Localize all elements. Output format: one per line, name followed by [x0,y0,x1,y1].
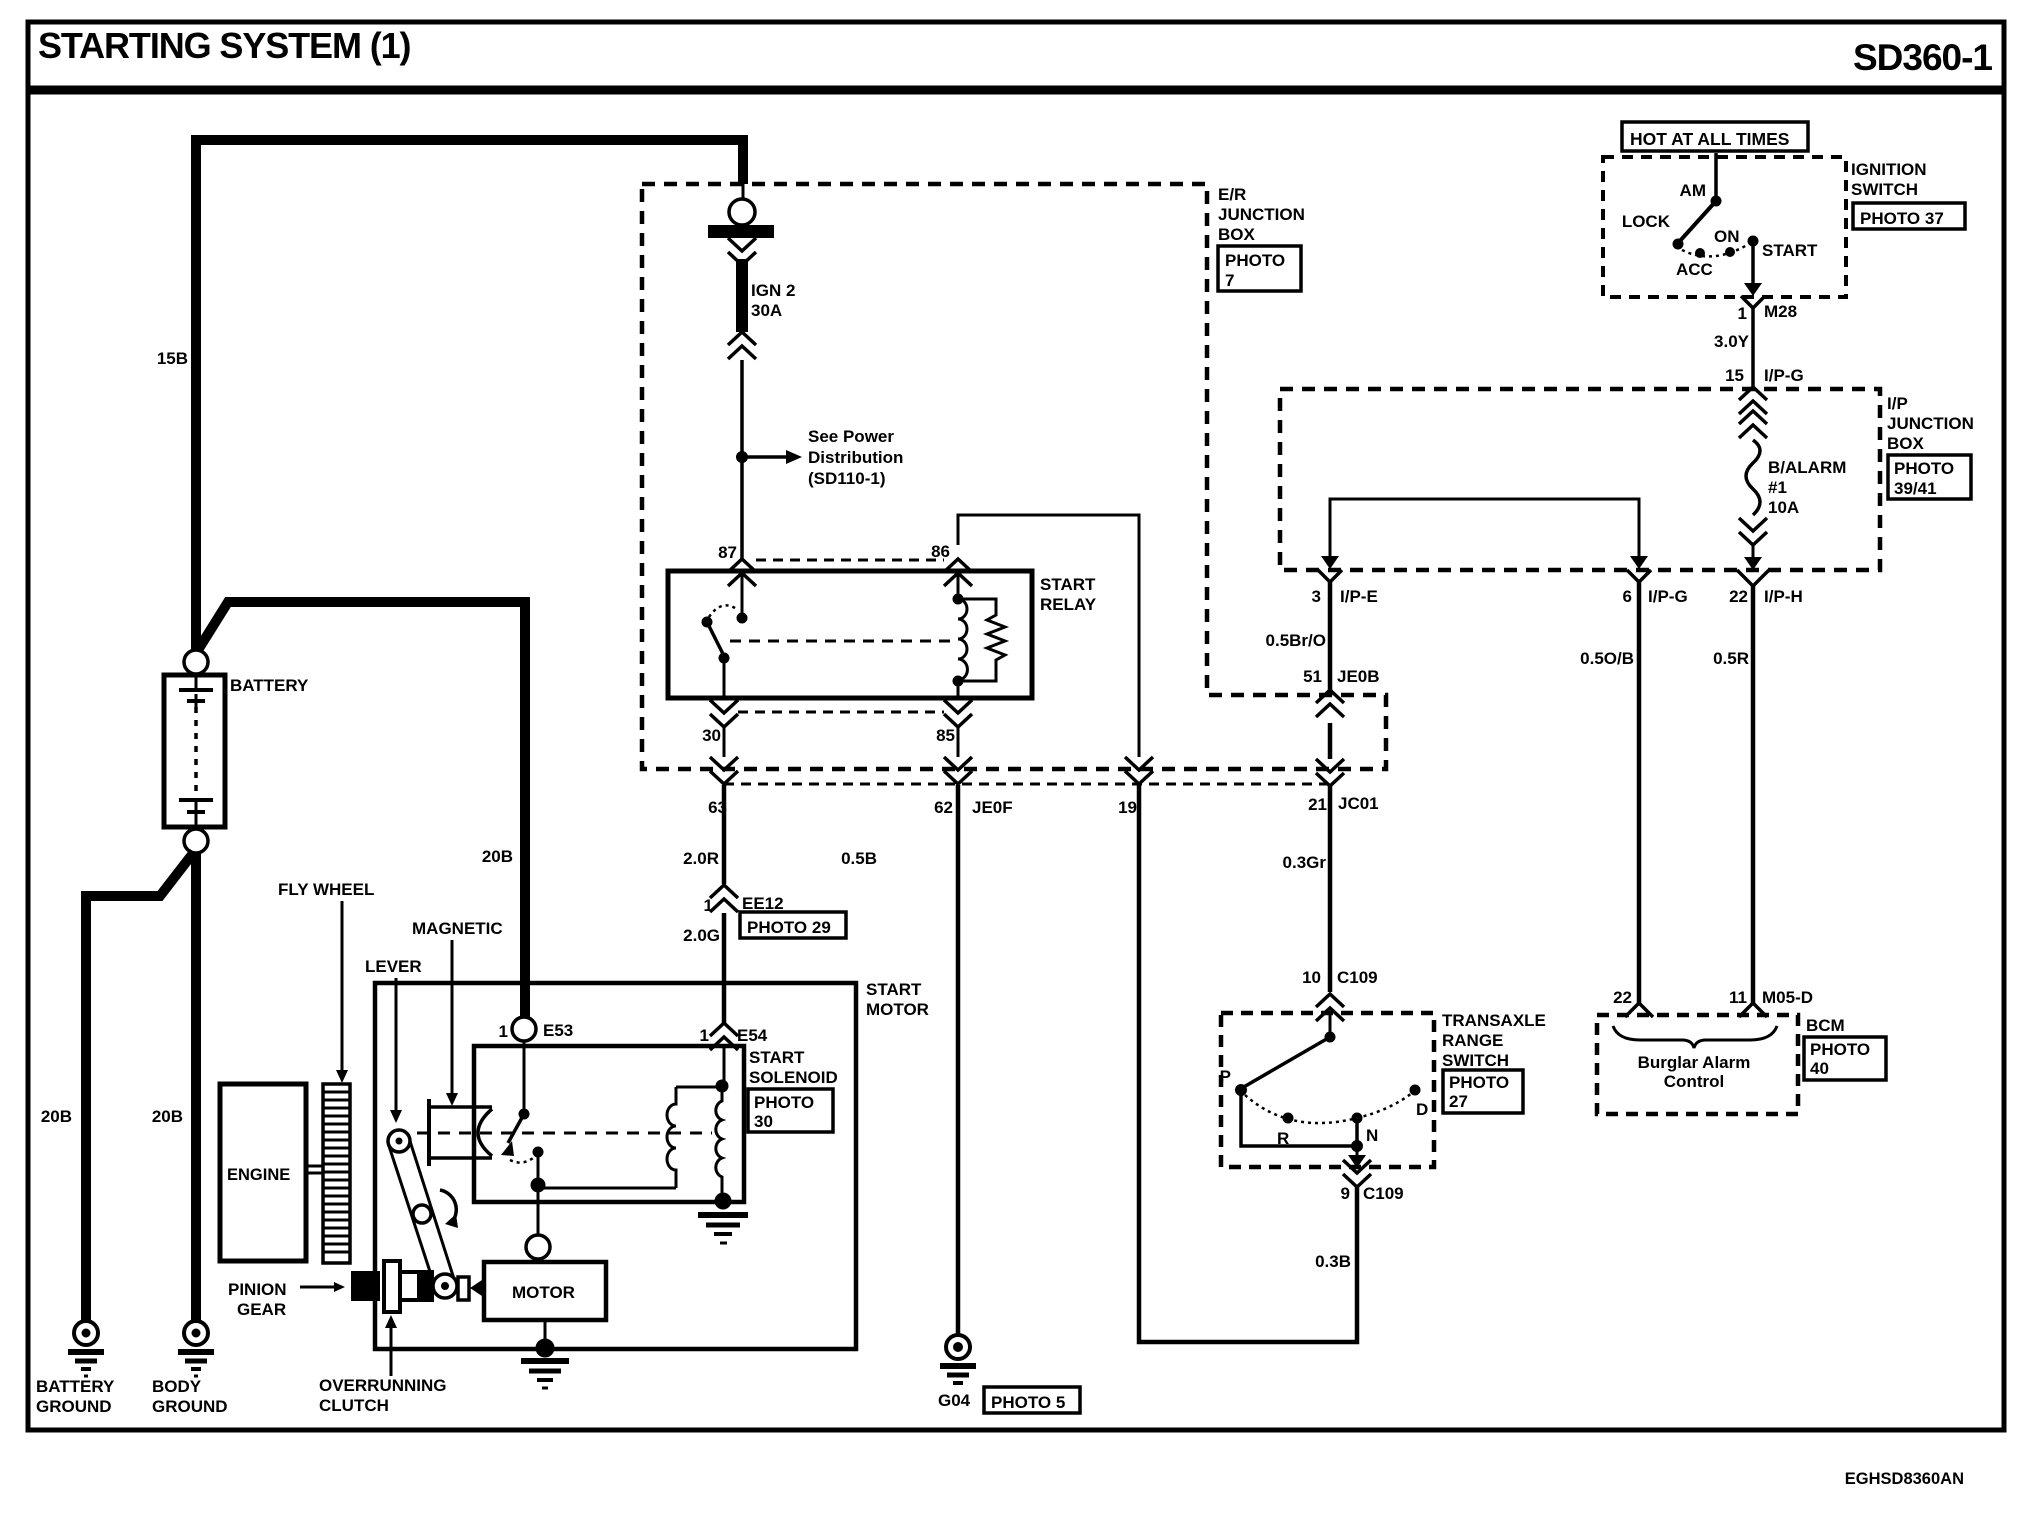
svg-text:(SD110-1): (SD110-1) [808,469,885,488]
svg-text:BATTERY: BATTERY [36,1377,115,1396]
battery bottom terminal circle [184,829,208,853]
svg-text:I/P-E: I/P-E [1340,587,1378,606]
internal wire pin3 to pin6 [1330,499,1639,556]
connector EE12 [710,885,738,912]
svg-text:87: 87 [718,543,737,562]
ground symbol battery ground [68,1321,104,1376]
svg-text:GEAR: GEAR [237,1300,286,1319]
wire 0.3Gr [1328,786,1333,992]
svg-text:M05-D: M05-D [1762,988,1813,1007]
photo ref box PHOTO 30 [748,1089,833,1132]
solenoid pull-in coil [667,1087,716,1188]
svg-text:GROUND: GROUND [36,1397,112,1416]
svg-text:I/P-H: I/P-H [1764,587,1803,606]
svg-text:1: 1 [1738,304,1747,323]
svg-text:SWITCH: SWITCH [1442,1051,1509,1070]
dashed link pin87-pin86 [756,559,944,562]
magnetic yoke [429,1099,492,1166]
svg-text:39/41: 39/41 [1894,479,1937,498]
pin 19 connector [1125,757,1153,784]
svg-text:PHOTO: PHOTO [1810,1040,1870,1059]
svg-text:MAGNETIC: MAGNETIC [412,919,503,938]
svg-text:HOT AT ALL TIMES: HOT AT ALL TIMES [1630,129,1789,149]
svg-text:B/ALARM: B/ALARM [1768,458,1846,477]
svg-text:20B: 20B [482,847,513,866]
svg-text:BOX: BOX [1887,434,1925,453]
svg-text:0.5Br/O: 0.5Br/O [1266,631,1326,650]
svg-text:I/P-G: I/P-G [1648,587,1688,606]
contact P [1235,1084,1247,1096]
svg-text:C109: C109 [1363,1184,1404,1203]
relay coil [957,572,960,596]
relay pin 30 connector [710,700,738,727]
svg-text:40: 40 [1810,1059,1829,1078]
svg-text:1: 1 [704,896,713,915]
svg-text:EGHSD8360AN: EGHSD8360AN [1845,1470,1964,1488]
pin 63 connector [710,757,738,784]
svg-text:20B: 20B [152,1107,183,1126]
ignition switch box (dashed) [1603,157,1846,297]
fuse IGN 2 30A [736,259,748,332]
svg-text:FLY WHEEL: FLY WHEEL [278,880,374,899]
svg-text:SD360-1: SD360-1 [1853,37,1992,78]
wire 0.5O/B [1637,582,1642,1004]
svg-text:Distribution: Distribution [808,448,903,467]
svg-text:M28: M28 [1764,302,1797,321]
svg-text:PHOTO 29: PHOTO 29 [747,918,831,937]
svg-text:62: 62 [934,798,953,817]
flywheel (toothed bar) [323,1084,350,1263]
svg-text:30: 30 [702,726,721,745]
wire 2.0R [722,785,727,884]
wire battery positive 15B (thick) [196,140,743,651]
svg-text:G04: G04 [938,1391,971,1410]
pin 22 I/P-H [1744,557,1762,570]
dashed link pin30-pin85 [738,711,944,714]
wire 20B battery to solenoid (thick) [198,602,525,1018]
svg-text:MOTOR: MOTOR [512,1283,575,1302]
wire E54 into solenoid [723,1048,726,1085]
svg-text:3: 3 [1312,587,1321,606]
fuse B/ALARM #1 10A [1739,411,1767,438]
svg-text:I/P-G: I/P-G [1764,366,1804,385]
svg-text:JUNCTION: JUNCTION [1218,205,1305,224]
motor box [484,1262,606,1320]
svg-text:START: START [866,980,922,999]
ground symbol body ground [178,1321,214,1376]
svg-text:3.0Y: 3.0Y [1714,332,1750,351]
svg-text:SOLENOID: SOLENOID [749,1068,838,1087]
photo ref box PHOTO 7 [1218,246,1301,291]
svg-text:See Power: See Power [808,427,894,446]
wire fuse to relay pin 87 [740,360,744,560]
engine to flywheel shaft [306,1165,323,1168]
svg-text:E/R: E/R [1218,185,1246,204]
svg-text:PHOTO 37: PHOTO 37 [1860,209,1944,228]
start solenoid box [474,1046,744,1202]
svg-text:27: 27 [1449,1092,1468,1111]
svg-text:TRANSAXLE: TRANSAXLE [1442,1011,1546,1030]
svg-text:E53: E53 [543,1021,573,1040]
svg-text:BOX: BOX [1218,225,1256,244]
svg-text:0.3B: 0.3B [1315,1252,1351,1271]
connector M28 pin 1 [1741,296,1765,308]
svg-text:START: START [749,1048,805,1067]
pin 3 I/P-E [1321,556,1339,569]
svg-text:RANGE: RANGE [1442,1031,1503,1050]
wire 0.5Br/O [1328,582,1333,696]
svg-text:0.3Gr: 0.3Gr [1283,853,1327,872]
motor ground [544,1320,547,1342]
svg-text:30: 30 [754,1112,773,1131]
svg-text:10A: 10A [1768,498,1799,517]
svg-text:I/P: I/P [1887,394,1908,413]
svg-text:1: 1 [499,1022,508,1041]
junction node (power distribution tap) [736,451,748,463]
svg-text:PHOTO: PHOTO [1449,1073,1509,1092]
junction connector row dashed [724,783,1329,786]
overrunning clutch body [384,1261,432,1312]
svg-text:PHOTO: PHOTO [754,1093,814,1112]
svg-text:0.5O/B: 0.5O/B [1580,649,1634,668]
svg-text:BATTERY: BATTERY [230,676,309,695]
wire 0.5R [1751,586,1756,1004]
svg-text:15B: 15B [157,349,188,368]
svg-text:22: 22 [1613,988,1632,1007]
svg-text:15: 15 [1725,366,1744,385]
battery symbol [164,674,225,829]
connector JC01 pin 21 [1316,759,1344,786]
svg-text:START: START [1040,575,1096,594]
clutch output collar [458,1277,469,1300]
svg-text:JE0F: JE0F [972,798,1013,817]
relay contact (movable) [741,572,744,614]
svg-text:#1: #1 [1768,478,1787,497]
svg-text:ON: ON [1714,227,1740,246]
svg-text:RELAY: RELAY [1040,595,1097,614]
svg-text:N: N [1366,1126,1378,1145]
svg-text:20B: 20B [41,1107,72,1126]
svg-text:MOTOR: MOTOR [866,1000,929,1019]
solenoid internal wire to coils [538,1187,676,1190]
wire 2.0G to E54 [722,913,727,1024]
transaxle range switch box (dashed) [1221,1013,1434,1167]
svg-text:30A: 30A [751,301,782,320]
wire 3.0Y [1751,308,1755,386]
connector E54 [710,1023,738,1050]
svg-text:E54: E54 [737,1026,768,1045]
engine block [220,1084,306,1261]
mechanical axis dashed line [417,1132,712,1135]
wire 0.5B from pin62 to G04 [956,785,961,1336]
relay pin 85 connector [944,700,972,727]
svg-text:2.0R: 2.0R [683,849,719,868]
svg-text:7: 7 [1225,271,1234,290]
range switch lever [1329,1014,1332,1035]
svg-text:C109: C109 [1337,968,1378,987]
svg-text:21: 21 [1308,795,1327,814]
svg-text:ACC: ACC [1676,260,1713,279]
svg-text:START: START [1762,241,1818,260]
pin 6 I/P-G [1630,556,1648,569]
svg-text:PHOTO 5: PHOTO 5 [991,1393,1065,1412]
rotation arrow [440,1190,456,1222]
svg-text:CLUTCH: CLUTCH [319,1396,389,1415]
pinion gear (black block) [351,1271,380,1301]
solenoid switch [523,1041,526,1110]
svg-text:86: 86 [931,542,950,561]
E/R junction box (dashed outline) [642,184,1386,769]
wire pin85 to junction pin62 [957,727,960,757]
photo ref box PHOTO 40 [1804,1037,1886,1080]
svg-text:PINION: PINION [228,1280,287,1299]
svg-text:10: 10 [1302,968,1321,987]
contacts R N D on dotted arc [1245,1093,1412,1123]
shift lever linkage [388,1130,457,1298]
svg-text:LEVER: LEVER [365,957,422,976]
svg-text:GROUND: GROUND [152,1397,228,1416]
motor terminal circle [526,1235,550,1259]
HOT AT ALL TIMES box [1622,122,1808,151]
svg-text:6: 6 [1623,587,1632,606]
svg-text:JC01: JC01 [1338,794,1379,813]
svg-text:Burglar Alarm: Burglar Alarm [1638,1053,1751,1072]
svg-text:19: 19 [1118,798,1137,817]
svg-text:SWITCH: SWITCH [1851,180,1918,199]
svg-text:11: 11 [1729,988,1747,1007]
svg-text:IGN 2: IGN 2 [751,281,795,300]
svg-text:51: 51 [1303,667,1322,686]
relay mechanical dashed link [730,640,950,643]
svg-text:IGNITION: IGNITION [1851,160,1927,179]
svg-text:JUNCTION: JUNCTION [1887,414,1974,433]
svg-text:BCM: BCM [1806,1016,1845,1035]
relay shunt resistor [958,599,1005,681]
solenoid hold-in coil [716,1092,722,1198]
svg-text:P: P [1220,1067,1231,1086]
wire pin30 to junction pin63 [723,727,726,757]
wire body ground 20B (thick) [191,853,201,1322]
connector E53 [512,1017,536,1041]
fusible link terminal (circle + bar) [742,184,745,200]
photo ref box PHOTO 5 [984,1387,1080,1413]
solenoid ground [698,1193,748,1243]
svg-text:BODY: BODY [152,1377,202,1396]
svg-text:22: 22 [1729,587,1748,606]
photo ref box PHOTO 27 [1443,1070,1523,1113]
connector C109 pin 9 [1356,1146,1359,1156]
svg-text:85: 85 [936,726,955,745]
I/P junction box (dashed) [1280,389,1880,570]
pin 62 JE0F connector [944,757,972,784]
photo ref box PHOTO 29 [740,912,846,938]
svg-text:AM: AM [1680,181,1706,200]
svg-text:JE0B: JE0B [1337,667,1380,686]
svg-text:PHOTO: PHOTO [1225,251,1285,270]
svg-text:EE12: EE12 [742,894,784,913]
svg-text:2.0G: 2.0G [683,926,720,945]
battery top terminal circle [184,650,208,674]
svg-text:PHOTO: PHOTO [1894,459,1954,478]
svg-text:LOCK: LOCK [1622,212,1671,231]
ground G04 [940,1335,976,1383]
svg-text:STARTING SYSTEM (1): STARTING SYSTEM (1) [38,25,411,66]
wire START contact down [1751,241,1755,284]
wire JE0B to JC01 [1328,723,1333,759]
wire battery ground 20B (thick) [86,852,194,1322]
photo ref box PHOTO 37 [1853,203,1965,229]
curly brace burglar alarm inputs [1613,1026,1777,1048]
svg-text:D: D [1416,1100,1428,1119]
wire relay coil 86 to pin 19 [958,515,1139,757]
switch internal wire P to N [1241,1090,1357,1146]
svg-text:1: 1 [700,1026,709,1045]
svg-text:OVERRUNNING: OVERRUNNING [319,1376,447,1395]
wire solenoid to motor [537,1188,540,1235]
start relay box [668,571,1032,698]
BCM box (dashed) [1597,1015,1798,1114]
svg-text:0.5R: 0.5R [1713,649,1749,668]
start motor box [375,983,856,1349]
wire pin19 to transaxle 0.3B return [1139,785,1357,1342]
photo ref box PHOTO 39/41 [1888,455,1971,499]
ignition switch contacts [1714,153,1718,198]
svg-text:0.5B: 0.5B [841,849,877,868]
svg-text:9: 9 [1341,1184,1350,1203]
svg-text:Control: Control [1664,1072,1724,1091]
svg-text:ENGINE: ENGINE [227,1166,290,1184]
